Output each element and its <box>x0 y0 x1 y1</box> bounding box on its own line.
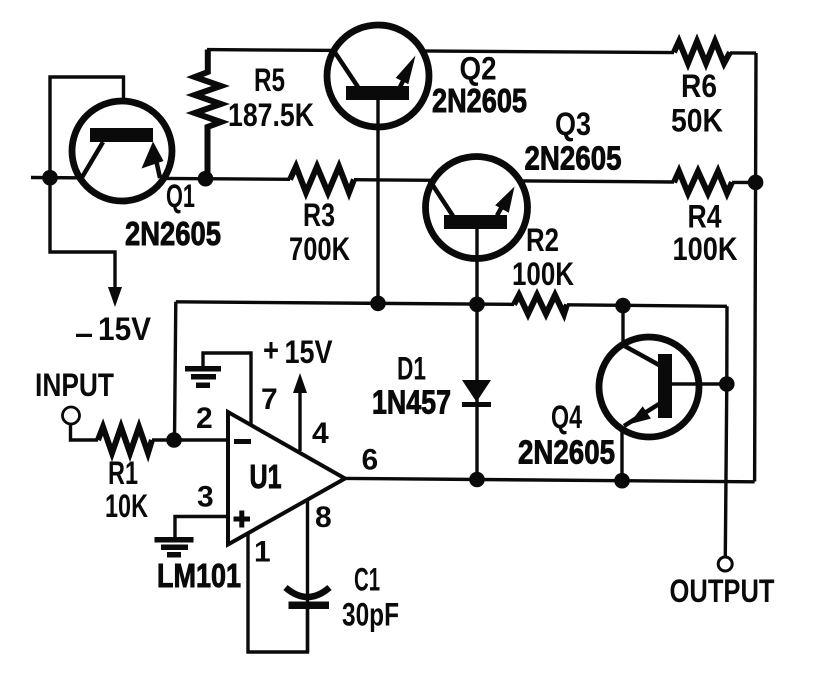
-15V supply arrow <box>50 178 115 292</box>
svg-text:2N2605: 2N2605 <box>432 82 527 119</box>
svg-text:U1: U1 <box>250 458 282 495</box>
svg-text:15V: 15V <box>285 334 334 370</box>
label Q4 <box>551 399 582 435</box>
label +15V <box>263 332 333 370</box>
wire: pin 8 lead <box>306 500 309 652</box>
label Q1 <box>166 178 195 214</box>
label R4 <box>688 199 722 235</box>
resistor R2 <box>514 295 567 314</box>
svg-text:3: 3 <box>197 481 214 514</box>
ground (pin 3) <box>155 537 194 558</box>
svg-text:1: 1 <box>254 536 271 569</box>
label INPUT <box>35 367 114 403</box>
label pin 6 <box>362 444 379 477</box>
label 100K value (R2) <box>512 256 574 292</box>
svg-text:D1: D1 <box>397 351 426 387</box>
resistor R6 <box>674 41 730 63</box>
label 100K value (R4) <box>673 231 738 267</box>
+15V supply arrow <box>298 390 301 451</box>
svg-text:Q1: Q1 <box>166 178 195 214</box>
transistor Q1 <box>72 101 172 201</box>
op-amp U1 <box>228 412 345 545</box>
svg-text:R2: R2 <box>526 222 559 258</box>
input terminal <box>63 407 80 424</box>
wire: pin 1 compensation loop <box>248 534 308 652</box>
svg-text:R4: R4 <box>688 199 722 235</box>
label 2N2605 (Q2) <box>432 82 527 119</box>
output terminal <box>718 557 732 571</box>
svg-text:2N2605: 2N2605 <box>125 215 221 252</box>
svg-text:–: – <box>75 315 93 351</box>
label pin 1 <box>254 536 271 569</box>
label R6 <box>681 68 717 104</box>
ground (pin 7) <box>185 366 221 388</box>
label 700K value <box>289 231 350 267</box>
label 2N2605 (Q3) <box>525 140 622 177</box>
label pin 8 <box>315 501 332 534</box>
label 2N2605 (Q1) <box>125 215 221 252</box>
junction: Q4 base output node <box>719 376 735 392</box>
label Q2 <box>460 51 497 87</box>
wire: output stub <box>725 384 727 556</box>
resistor R1 <box>98 427 152 453</box>
label LM101 <box>157 557 241 594</box>
svg-text:R5: R5 <box>254 62 285 98</box>
label 187.5K value <box>228 97 314 133</box>
label 1N457 <box>372 384 451 421</box>
label R1 <box>108 455 138 491</box>
diode D1 <box>475 304 478 479</box>
junction: R4 right rail node <box>748 175 764 191</box>
svg-text:4: 4 <box>312 417 329 450</box>
label Q3 <box>555 106 591 142</box>
wire: output node y=480 <box>345 478 755 481</box>
svg-text:1N457: 1N457 <box>372 384 451 421</box>
wire: Q2 base lead <box>376 100 379 304</box>
junction: Q4 collector node <box>615 298 631 314</box>
label R3 <box>303 197 335 233</box>
svg-text:100K: 100K <box>512 256 574 292</box>
svg-text:100K: 100K <box>673 231 738 267</box>
svg-text:R6: R6 <box>681 68 717 104</box>
svg-text:Q3: Q3 <box>555 106 591 142</box>
label D1 <box>397 351 426 387</box>
wire: Q4 base lead <box>672 382 727 385</box>
label 30pF value <box>342 597 399 633</box>
svg-text:Q4: Q4 <box>551 399 582 435</box>
junction: Q4 emitter node <box>614 473 630 489</box>
label pin 2 <box>196 402 213 435</box>
junction: Q2 base node <box>370 296 386 312</box>
svg-text:50K: 50K <box>671 103 723 139</box>
svg-text:700K: 700K <box>289 231 350 267</box>
wire: feedback node y=303 <box>176 302 727 384</box>
svg-text:2: 2 <box>196 402 213 435</box>
svg-text:7: 7 <box>261 383 278 416</box>
wire: pin 3 to ground <box>175 517 228 538</box>
svg-text:+: + <box>263 332 279 368</box>
svg-text:15V: 15V <box>98 311 152 347</box>
op-amp plus sign <box>234 511 251 528</box>
wire: Q4 collector lead <box>621 306 624 350</box>
transistor Q4 <box>599 337 699 437</box>
svg-text:C1: C1 <box>354 562 380 598</box>
resistor R3 <box>290 167 354 193</box>
wire: input lead <box>71 423 229 440</box>
label 10K value <box>105 488 148 524</box>
label R2 <box>526 222 559 258</box>
wire: pin 7 to ground <box>203 353 251 424</box>
transistor Q2 <box>327 25 429 127</box>
svg-text:2N2605: 2N2605 <box>518 434 615 471</box>
wire: Q1 base loop <box>50 77 124 180</box>
svg-text:30pF: 30pF <box>342 597 399 633</box>
label 50K value <box>671 103 723 139</box>
junction: D1 output node <box>469 472 485 488</box>
capacitor C1 <box>286 588 330 598</box>
resistor R4 <box>674 171 732 193</box>
wire: node A horizontal (Q1 collector to R4) <box>31 178 756 183</box>
label pin 4 <box>312 417 329 450</box>
label U1 <box>250 458 282 495</box>
junction: R5 bottom node <box>198 171 214 187</box>
resistor R5 <box>195 50 221 179</box>
svg-text:INPUT: INPUT <box>35 367 114 403</box>
label pin 3 <box>197 481 214 514</box>
label C1 <box>354 562 380 598</box>
svg-text:8: 8 <box>315 501 332 534</box>
label -15V <box>75 311 152 351</box>
transistor Q3 <box>426 157 528 259</box>
wire: right rail <box>755 53 756 482</box>
wire: inverting input vertical <box>175 302 176 440</box>
label pin 7 <box>261 383 278 416</box>
svg-text:R1: R1 <box>108 455 138 491</box>
svg-text:187.5K: 187.5K <box>228 97 314 133</box>
label OUTPUT <box>670 573 775 609</box>
svg-text:2N2605: 2N2605 <box>525 140 622 177</box>
junction: Q1 left node <box>42 170 58 186</box>
svg-text:6: 6 <box>362 444 379 477</box>
junction: Q3 base / D1 node <box>469 297 485 313</box>
wire: Q3 base lead <box>475 229 478 304</box>
wire: +15V top rail <box>207 50 756 54</box>
label 2N2605 (Q4) <box>518 434 615 471</box>
junction: inverting input node <box>166 432 182 448</box>
svg-text:R3: R3 <box>303 197 335 233</box>
op-amp minus sign <box>234 439 251 444</box>
wire: Q4 emitter lead <box>620 427 623 481</box>
svg-text:10K: 10K <box>105 488 148 524</box>
svg-text:LM101: LM101 <box>157 557 241 594</box>
label R5 <box>254 62 285 98</box>
svg-text:OUTPUT: OUTPUT <box>670 573 775 609</box>
